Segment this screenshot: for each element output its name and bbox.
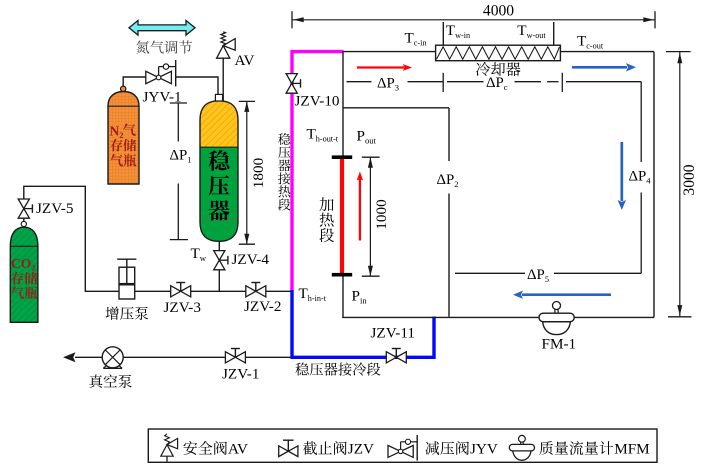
svg-text:AV: AV — [235, 52, 255, 69]
wire JZV-4 to manifold — [218, 270, 220, 292]
svg-text:JZV-4: JZV-4 — [232, 251, 270, 268]
svg-text:4000: 4000 — [483, 3, 514, 20]
loop left pipe upper — [342, 52, 344, 157]
stop valve JZV-4 — [214, 251, 225, 261]
dimension 1800 — [239, 100, 255, 102]
legend box — [148, 429, 657, 462]
dimension 1000 — [362, 156, 380, 158]
svg-text:JZV: JZV — [348, 441, 374, 458]
svg-text:1000: 1000 — [373, 199, 390, 230]
svg-text:JYV: JYV — [470, 441, 498, 458]
loop right pipe — [653, 52, 655, 318]
ΔPc tap line — [447, 81, 484, 83]
wire JZV-3 to JZV-2 — [191, 290, 246, 292]
label 稳压器 (vertical) — [208, 150, 229, 171]
pressurizer vessel body — [200, 101, 238, 242]
ΔP2 tap lines — [343, 107, 449, 109]
CO2 storage cylinder — [10, 227, 38, 322]
svg-text:JZV-10: JZV-10 — [295, 93, 340, 110]
svg-text:JZV-2: JZV-2 — [244, 298, 281, 315]
vacuum pump — [102, 347, 123, 368]
tick — [561, 73, 563, 92]
svg-text:JZV-11: JZV-11 — [371, 324, 415, 341]
label 加热段 (vertical) — [319, 197, 333, 211]
tick — [442, 73, 444, 92]
wire vessel bottom to JZV-4 — [218, 241, 220, 251]
ΔP3 tap line — [347, 81, 372, 83]
label 稳压器接冷段 — [295, 363, 308, 376]
svg-text:FM-1: FM-1 — [542, 335, 577, 352]
heated test section (red) — [340, 158, 344, 275]
nitrogen-regulation double arrow — [129, 21, 195, 36]
blue line 稳压器接冷段 — [292, 290, 434, 357]
svg-text:AV: AV — [228, 441, 248, 458]
legend label 减压阀JYV — [425, 441, 439, 455]
stop valve JZV-3 — [171, 286, 181, 297]
cooler 冷却器 — [436, 45, 561, 61]
svg-text:3000: 3000 — [681, 164, 698, 195]
ΔP5 tap line — [554, 272, 641, 274]
dimension bracket ΔP1 — [170, 102, 187, 104]
svg-text:JZV-1: JZV-1 — [222, 365, 259, 382]
svg-text:MFM: MFM — [614, 441, 650, 458]
legend label 截止阀JZV — [303, 441, 317, 455]
svg-text:1800: 1800 — [250, 157, 267, 188]
wire CO2 to JZV-5 — [23, 218, 25, 221]
dimension 4000 — [292, 19, 655, 21]
cooler water taps — [442, 22, 444, 45]
vessel top nozzle — [215, 94, 222, 101]
stop valve JZV-2 — [246, 286, 256, 297]
dimension 3000 — [666, 51, 691, 53]
svg-text:JZV-3: JZV-3 — [164, 299, 201, 316]
mass flow meter FM-1 — [543, 322, 571, 335]
N2 storage cylinder — [108, 92, 139, 185]
blue flow arrow right — [572, 66, 627, 69]
wire JZV-5 to booster pump — [24, 186, 119, 291]
red flow arrow up — [359, 178, 361, 241]
booster pump — [119, 267, 135, 299]
loop top pipe — [343, 51, 654, 53]
loop bottom pipe — [342, 316, 654, 318]
safety valve AV — [222, 58, 224, 102]
blue flow arrow down — [620, 142, 623, 201]
legend label 安全阀AV — [183, 441, 197, 455]
red flow arrow right — [357, 66, 404, 68]
wire N2 to JYV-1 — [123, 77, 146, 86]
svg-text:JZV-5: JZV-5 — [36, 200, 73, 217]
pressure reducing valve JYV-1 — [146, 71, 159, 83]
legend safety valve symbol — [166, 456, 168, 461]
label 冷却器 — [476, 62, 490, 76]
stop valve JZV-5 — [18, 199, 29, 209]
label 增压泵 — [106, 307, 119, 320]
legend reducing valve symbol — [388, 445, 401, 457]
ΔP4 tap line — [566, 81, 641, 83]
legend flow meter symbol — [513, 451, 531, 460]
legend label 质量流量计MFM — [539, 441, 553, 455]
stop valve JZV-11 — [386, 352, 396, 363]
wire pump to JZV-3 — [135, 290, 171, 292]
loop left pipe lower — [342, 275, 344, 318]
blue flow arrow left — [522, 293, 611, 296]
stop valve JZV-10 — [286, 74, 297, 84]
legend stop valve symbol — [279, 446, 289, 457]
stop valve JZV-1 — [225, 352, 235, 363]
label 真空泵 — [89, 375, 102, 389]
label 氮气调节 — [136, 40, 149, 53]
magenta line 稳压器接热段 — [292, 52, 344, 292]
wire JYV-1 to vessel nozzle — [176, 77, 218, 95]
label 稳压器接热段 (vertical) — [278, 133, 290, 145]
vacuum line wire — [75, 356, 292, 358]
wire JZV-2 to loop corner — [266, 290, 291, 292]
